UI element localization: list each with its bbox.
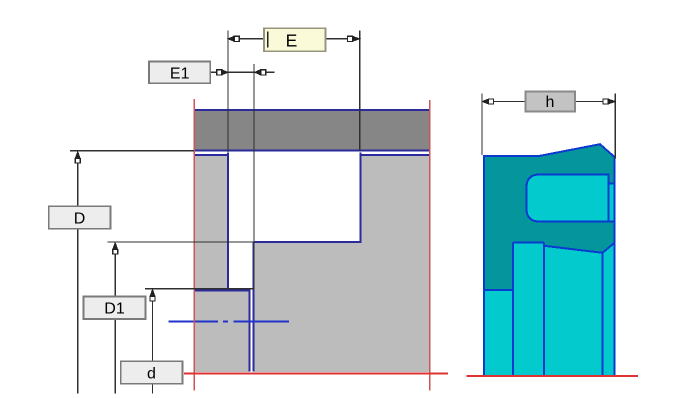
svg-text:D: D — [74, 211, 86, 228]
svg-text:h: h — [546, 94, 555, 111]
red baseline left figure — [184, 372, 448, 374]
step vertical edge navy — [249, 291, 251, 372]
dimension line D vertical — [77, 153, 79, 394]
arrow D1 up — [113, 243, 118, 254]
seal internal boundary lines blue — [484, 242, 615, 374]
extension line E right x359.7 — [359, 31, 361, 152]
extension line E1 right x254 — [253, 64, 255, 289]
dimension line D1 vertical — [114, 244, 116, 394]
svg-text:d: d — [147, 366, 156, 383]
arrow d up — [150, 290, 155, 301]
housing body light gray fill — [195, 155, 430, 372]
housing bore dark band — [195, 110, 431, 151]
red border vertical left — [193, 99, 195, 391]
label box D — [49, 206, 111, 229]
dimension line d vertical — [152, 291, 154, 394]
seal spring cavity rounded cyan — [527, 175, 609, 222]
extension line D — [70, 150, 194, 152]
groove bottom edge navy — [254, 241, 362, 243]
label box h — [526, 92, 576, 112]
label box D1 — [84, 297, 146, 320]
red border vertical right — [429, 100, 431, 391]
dimension lines black — [70, 31, 615, 394]
arrow E right — [347, 36, 359, 41]
seal lower cyan region — [484, 242, 615, 374]
svg-text:E: E — [286, 30, 298, 50]
dimension line h — [484, 101, 526, 103]
centerline dash-dot blue — [168, 320, 289, 322]
arrow E left — [229, 36, 240, 41]
dimension line E1 with tail — [210, 71, 216, 73]
extension line h right — [614, 93, 616, 158]
groove right edge navy — [360, 153, 362, 243]
label box E1 — [149, 62, 210, 84]
shaft bore right edge navy — [252, 242, 254, 372]
arrow h right — [603, 99, 615, 104]
red baseline right figure — [466, 375, 638, 377]
label box d — [121, 361, 183, 384]
svg-text:D1: D1 — [104, 301, 125, 318]
seal seat line left navy — [195, 154, 229, 156]
arrow E1 right pointing left — [255, 70, 266, 75]
bore band bottom edge navy — [195, 150, 431, 152]
seal right strip cyan — [609, 184, 615, 222]
seal seat line right navy — [360, 154, 430, 156]
seal outer outline blue — [484, 144, 615, 375]
arrow h left — [483, 99, 494, 104]
arrow E1 left pointing right — [217, 70, 228, 75]
step horizontal edge navy — [195, 290, 251, 292]
seal teal body — [484, 144, 615, 375]
bore band top edge navy — [195, 109, 431, 111]
extension line h left — [481, 93, 483, 155]
label box E yellow — [264, 28, 326, 51]
svg-text:E1: E1 — [170, 66, 190, 83]
dimension line E — [239, 38, 264, 40]
extension line d — [145, 288, 254, 290]
extension line E left x228 — [227, 31, 229, 153]
extension line D1 — [108, 241, 254, 243]
arrow D up — [75, 152, 80, 163]
groove left edge navy — [227, 153, 229, 291]
